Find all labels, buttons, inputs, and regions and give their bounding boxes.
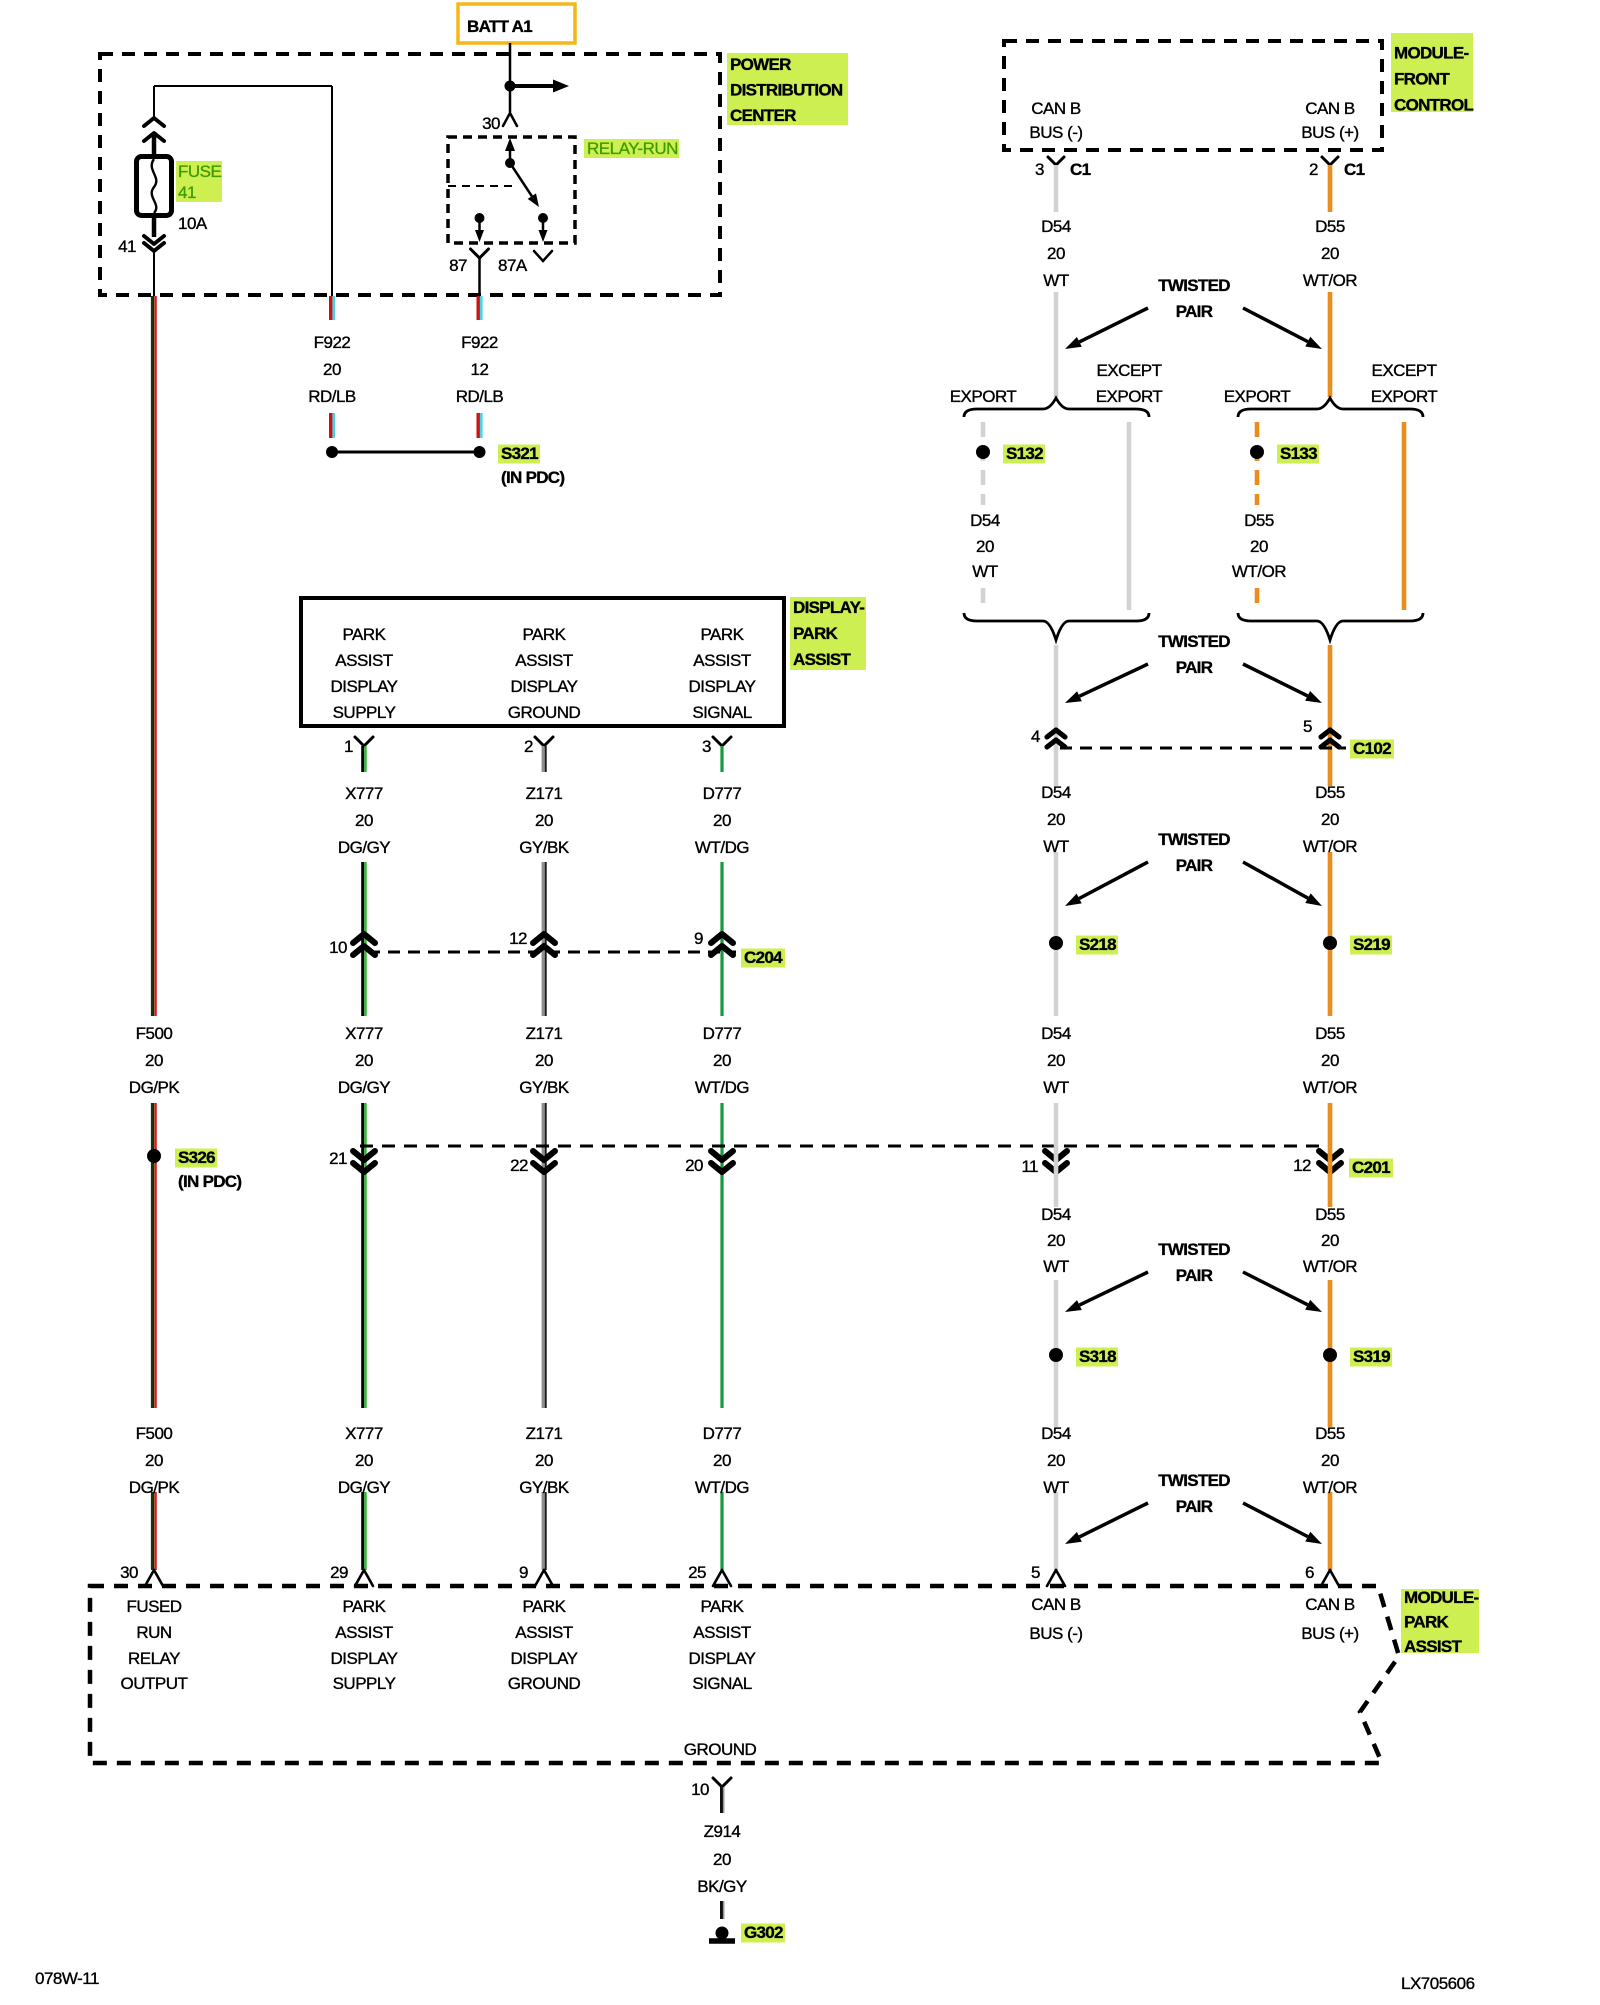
svg-text:RELAY-RUN: RELAY-RUN bbox=[587, 139, 678, 158]
svg-text:FRONT: FRONT bbox=[1394, 70, 1450, 89]
svg-text:20: 20 bbox=[535, 1051, 553, 1070]
svg-text:CAN B: CAN B bbox=[1305, 99, 1355, 118]
svg-text:10A: 10A bbox=[178, 214, 208, 233]
svg-text:BUS (+): BUS (+) bbox=[1301, 123, 1358, 142]
svg-text:RUN: RUN bbox=[136, 1623, 171, 1642]
svg-text:WT: WT bbox=[1043, 1478, 1069, 1497]
svg-text:PARK: PARK bbox=[700, 1597, 744, 1616]
svg-text:D55: D55 bbox=[1315, 1024, 1345, 1043]
svg-text:DG/PK: DG/PK bbox=[129, 1478, 181, 1497]
svg-text:RELAY: RELAY bbox=[128, 1649, 180, 1668]
svg-text:20: 20 bbox=[323, 360, 341, 379]
svg-text:F500: F500 bbox=[136, 1424, 173, 1443]
svg-text:CAN B: CAN B bbox=[1305, 1595, 1355, 1614]
svg-text:CAN B: CAN B bbox=[1031, 99, 1081, 118]
svg-text:Z914: Z914 bbox=[704, 1822, 741, 1841]
svg-text:POWER: POWER bbox=[730, 55, 791, 74]
svg-text:D54: D54 bbox=[1041, 1424, 1071, 1443]
svg-text:WT/OR: WT/OR bbox=[1303, 1257, 1357, 1276]
svg-text:20: 20 bbox=[145, 1051, 163, 1070]
svg-text:BK/GY: BK/GY bbox=[697, 1877, 747, 1896]
svg-text:PAIR: PAIR bbox=[1176, 658, 1213, 677]
svg-text:DISPLAY: DISPLAY bbox=[688, 1649, 755, 1668]
svg-text:20: 20 bbox=[1321, 1451, 1339, 1470]
svg-text:20: 20 bbox=[1321, 244, 1339, 263]
svg-text:F922: F922 bbox=[314, 333, 351, 352]
svg-text:PARK: PARK bbox=[522, 1597, 566, 1616]
svg-text:20: 20 bbox=[1321, 1231, 1339, 1250]
svg-text:2: 2 bbox=[524, 737, 533, 756]
svg-text:20: 20 bbox=[355, 811, 373, 830]
svg-text:D55: D55 bbox=[1315, 1205, 1345, 1224]
svg-text:D54: D54 bbox=[1041, 1024, 1071, 1043]
svg-text:Z171: Z171 bbox=[526, 784, 563, 803]
svg-text:BUS (+): BUS (+) bbox=[1301, 1624, 1358, 1643]
svg-text:EXPORT: EXPORT bbox=[1371, 387, 1438, 406]
svg-text:TWISTED: TWISTED bbox=[1158, 632, 1230, 651]
svg-text:DISPLAY: DISPLAY bbox=[510, 677, 577, 696]
svg-text:Z171: Z171 bbox=[526, 1024, 563, 1043]
svg-text:9: 9 bbox=[519, 1563, 528, 1582]
svg-text:S318: S318 bbox=[1079, 1347, 1116, 1366]
svg-text:41: 41 bbox=[178, 183, 196, 202]
svg-text:12: 12 bbox=[1293, 1156, 1311, 1175]
svg-text:DG/GY: DG/GY bbox=[338, 1478, 390, 1497]
svg-text:12: 12 bbox=[509, 929, 527, 948]
svg-text:D54: D54 bbox=[1041, 1205, 1071, 1224]
svg-text:GROUND: GROUND bbox=[508, 1674, 581, 1693]
svg-text:S132: S132 bbox=[1006, 444, 1043, 463]
svg-text:20: 20 bbox=[535, 1451, 553, 1470]
svg-text:TWISTED: TWISTED bbox=[1158, 1471, 1230, 1490]
svg-text:3: 3 bbox=[702, 737, 711, 756]
svg-text:PAIR: PAIR bbox=[1176, 856, 1213, 875]
svg-text:BUS (-): BUS (-) bbox=[1029, 123, 1082, 142]
svg-text:BUS (-): BUS (-) bbox=[1029, 1624, 1082, 1643]
svg-text:TWISTED: TWISTED bbox=[1158, 1240, 1230, 1259]
svg-text:4: 4 bbox=[1031, 727, 1040, 746]
svg-text:DISPLAY: DISPLAY bbox=[330, 1649, 397, 1668]
svg-text:87: 87 bbox=[449, 256, 467, 275]
svg-text:30: 30 bbox=[120, 1563, 138, 1582]
svg-text:20: 20 bbox=[1047, 244, 1065, 263]
svg-text:SIGNAL: SIGNAL bbox=[692, 1674, 751, 1693]
svg-text:30: 30 bbox=[482, 114, 500, 133]
svg-text:20: 20 bbox=[1321, 1051, 1339, 1070]
svg-text:GY/BK: GY/BK bbox=[519, 1078, 570, 1097]
svg-text:25: 25 bbox=[688, 1563, 706, 1582]
svg-text:S319: S319 bbox=[1353, 1347, 1390, 1366]
svg-text:WT/DG: WT/DG bbox=[695, 838, 749, 857]
svg-text:PARK: PARK bbox=[342, 625, 386, 644]
svg-text:S218: S218 bbox=[1079, 935, 1116, 954]
svg-text:EXCEPT: EXCEPT bbox=[1371, 361, 1436, 380]
svg-text:SIGNAL: SIGNAL bbox=[692, 703, 751, 722]
svg-text:S219: S219 bbox=[1353, 935, 1390, 954]
svg-text:20: 20 bbox=[145, 1451, 163, 1470]
svg-text:EXPORT: EXPORT bbox=[1224, 387, 1291, 406]
svg-text:20: 20 bbox=[976, 537, 994, 556]
svg-text:DISPLAY: DISPLAY bbox=[330, 677, 397, 696]
svg-text:D54: D54 bbox=[1041, 783, 1071, 802]
svg-text:GY/BK: GY/BK bbox=[519, 838, 570, 857]
svg-text:PAIR: PAIR bbox=[1176, 1266, 1213, 1285]
svg-text:20: 20 bbox=[1321, 810, 1339, 829]
svg-text:GROUND: GROUND bbox=[684, 1740, 757, 1759]
svg-text:(IN PDC): (IN PDC) bbox=[178, 1172, 241, 1191]
svg-text:20: 20 bbox=[713, 1451, 731, 1470]
svg-text:20: 20 bbox=[355, 1451, 373, 1470]
svg-text:DG/GY: DG/GY bbox=[338, 838, 390, 857]
svg-text:ASSIST: ASSIST bbox=[335, 1623, 393, 1642]
svg-text:10: 10 bbox=[329, 938, 347, 957]
svg-text:OUTPUT: OUTPUT bbox=[121, 1674, 188, 1693]
svg-text:RD/LB: RD/LB bbox=[456, 387, 504, 406]
svg-text:20: 20 bbox=[1047, 1231, 1065, 1250]
svg-text:D54: D54 bbox=[970, 511, 1000, 530]
svg-text:EXPORT: EXPORT bbox=[950, 387, 1017, 406]
svg-text:D777: D777 bbox=[703, 1424, 742, 1443]
svg-text:TWISTED: TWISTED bbox=[1158, 830, 1230, 849]
svg-text:PAIR: PAIR bbox=[1176, 302, 1213, 321]
svg-text:FUSED: FUSED bbox=[126, 1597, 181, 1616]
svg-text:12: 12 bbox=[471, 360, 489, 379]
svg-text:MODULE-: MODULE- bbox=[1394, 44, 1468, 63]
svg-text:WT/OR: WT/OR bbox=[1303, 1078, 1357, 1097]
svg-text:20: 20 bbox=[1047, 810, 1065, 829]
svg-text:EXPORT: EXPORT bbox=[1096, 387, 1163, 406]
svg-text:WT/OR: WT/OR bbox=[1303, 837, 1357, 856]
svg-text:5: 5 bbox=[1031, 1563, 1040, 1582]
svg-text:D55: D55 bbox=[1315, 1424, 1345, 1443]
svg-text:SUPPLY: SUPPLY bbox=[333, 703, 396, 722]
svg-text:WT: WT bbox=[1043, 271, 1069, 290]
svg-text:WT: WT bbox=[1043, 1078, 1069, 1097]
svg-text:ASSIST: ASSIST bbox=[335, 651, 393, 670]
svg-text:S321: S321 bbox=[501, 444, 538, 463]
svg-text:WT/OR: WT/OR bbox=[1232, 562, 1286, 581]
svg-text:PARK: PARK bbox=[793, 624, 839, 643]
svg-text:C1: C1 bbox=[1344, 160, 1365, 179]
svg-text:078W-11: 078W-11 bbox=[35, 1969, 99, 1988]
svg-text:X777: X777 bbox=[345, 1424, 383, 1443]
svg-text:3: 3 bbox=[1035, 160, 1044, 179]
svg-text:ASSIST: ASSIST bbox=[1404, 1637, 1463, 1656]
svg-text:DISPLAY: DISPLAY bbox=[688, 677, 755, 696]
svg-text:WT/OR: WT/OR bbox=[1303, 271, 1357, 290]
svg-text:D777: D777 bbox=[703, 1024, 742, 1043]
svg-text:2: 2 bbox=[1309, 160, 1318, 179]
svg-text:WT/DG: WT/DG bbox=[695, 1478, 749, 1497]
svg-text:GROUND: GROUND bbox=[508, 703, 581, 722]
svg-text:FUSE: FUSE bbox=[178, 162, 222, 181]
svg-text:(IN PDC): (IN PDC) bbox=[501, 468, 564, 487]
svg-text:D54: D54 bbox=[1041, 217, 1071, 236]
svg-text:ASSIST: ASSIST bbox=[693, 651, 751, 670]
svg-text:D55: D55 bbox=[1315, 217, 1345, 236]
svg-text:WT: WT bbox=[972, 562, 998, 581]
svg-text:20: 20 bbox=[1047, 1051, 1065, 1070]
svg-text:20: 20 bbox=[713, 1051, 731, 1070]
svg-text:S133: S133 bbox=[1280, 444, 1317, 463]
svg-text:CENTER: CENTER bbox=[730, 106, 796, 125]
svg-text:TWISTED: TWISTED bbox=[1158, 276, 1230, 295]
svg-text:C201: C201 bbox=[1352, 1158, 1390, 1177]
svg-text:9: 9 bbox=[694, 929, 703, 948]
svg-text:PARK: PARK bbox=[342, 1597, 386, 1616]
svg-text:MODULE-: MODULE- bbox=[1404, 1588, 1478, 1607]
svg-text:F500: F500 bbox=[136, 1024, 173, 1043]
svg-text:WT: WT bbox=[1043, 837, 1069, 856]
svg-text:ASSIST: ASSIST bbox=[693, 1623, 751, 1642]
svg-text:20: 20 bbox=[685, 1156, 703, 1175]
svg-text:LX705606: LX705606 bbox=[1401, 1974, 1475, 1993]
svg-text:20: 20 bbox=[713, 1850, 731, 1869]
svg-text:20: 20 bbox=[355, 1051, 373, 1070]
svg-text:29: 29 bbox=[330, 1563, 348, 1582]
svg-text:6: 6 bbox=[1305, 1563, 1314, 1582]
svg-text:DISTRIBUTION: DISTRIBUTION bbox=[730, 81, 843, 100]
svg-text:C1: C1 bbox=[1070, 160, 1091, 179]
svg-text:CAN B: CAN B bbox=[1031, 1595, 1081, 1614]
svg-text:DISPLAY-: DISPLAY- bbox=[793, 598, 864, 617]
svg-text:X777: X777 bbox=[345, 784, 383, 803]
svg-text:87A: 87A bbox=[498, 256, 528, 275]
svg-text:20: 20 bbox=[713, 811, 731, 830]
svg-text:G302: G302 bbox=[744, 1923, 783, 1942]
svg-text:C102: C102 bbox=[1353, 739, 1391, 758]
svg-text:5: 5 bbox=[1303, 717, 1312, 736]
svg-text:20: 20 bbox=[1250, 537, 1268, 556]
svg-text:DISPLAY: DISPLAY bbox=[510, 1649, 577, 1668]
svg-text:22: 22 bbox=[510, 1156, 528, 1175]
svg-text:D55: D55 bbox=[1315, 783, 1345, 802]
svg-text:Z171: Z171 bbox=[526, 1424, 563, 1443]
svg-text:BATT A1: BATT A1 bbox=[467, 17, 532, 36]
svg-text:21: 21 bbox=[329, 1149, 347, 1168]
svg-text:D777: D777 bbox=[703, 784, 742, 803]
svg-text:EXCEPT: EXCEPT bbox=[1096, 361, 1161, 380]
svg-text:PARK: PARK bbox=[522, 625, 566, 644]
svg-text:ASSIST: ASSIST bbox=[515, 651, 573, 670]
svg-text:11: 11 bbox=[1021, 1157, 1038, 1176]
svg-text:ASSIST: ASSIST bbox=[515, 1623, 573, 1642]
svg-text:41: 41 bbox=[118, 237, 136, 256]
svg-text:X777: X777 bbox=[345, 1024, 383, 1043]
svg-text:10: 10 bbox=[691, 1780, 709, 1799]
svg-text:20: 20 bbox=[1047, 1451, 1065, 1470]
svg-text:WT/DG: WT/DG bbox=[695, 1078, 749, 1097]
svg-text:PARK: PARK bbox=[1404, 1613, 1450, 1632]
svg-text:SUPPLY: SUPPLY bbox=[333, 1674, 396, 1693]
svg-text:DG/PK: DG/PK bbox=[129, 1078, 181, 1097]
svg-text:WT/OR: WT/OR bbox=[1303, 1478, 1357, 1497]
svg-text:DG/GY: DG/GY bbox=[338, 1078, 390, 1097]
svg-text:C204: C204 bbox=[744, 948, 783, 967]
svg-text:S326: S326 bbox=[178, 1148, 215, 1167]
svg-text:ASSIST: ASSIST bbox=[793, 650, 852, 669]
svg-text:D55: D55 bbox=[1244, 511, 1274, 530]
svg-text:WT: WT bbox=[1043, 1257, 1069, 1276]
svg-text:20: 20 bbox=[535, 811, 553, 830]
svg-text:GY/BK: GY/BK bbox=[519, 1478, 570, 1497]
svg-text:RD/LB: RD/LB bbox=[308, 387, 356, 406]
svg-text:1: 1 bbox=[344, 737, 353, 756]
svg-text:PAIR: PAIR bbox=[1176, 1497, 1213, 1516]
svg-text:F922: F922 bbox=[461, 333, 498, 352]
svg-text:CONTROL: CONTROL bbox=[1394, 96, 1473, 115]
svg-text:PARK: PARK bbox=[700, 625, 744, 644]
